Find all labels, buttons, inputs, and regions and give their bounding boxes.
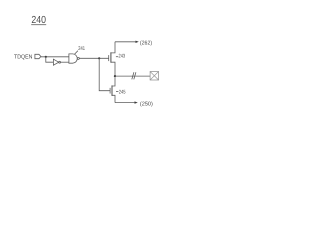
figure label 240 <box>31 15 46 26</box>
underline of 240 <box>31 24 46 26</box>
node junction at TDQEN branch <box>45 56 47 58</box>
arrowhead to (262) <box>136 41 139 43</box>
wire Q243 drain to node 262 <box>115 41 136 43</box>
wire inverter output to gate U241 bottom input <box>61 61 69 63</box>
net label (250) <box>140 100 153 107</box>
label 245 <box>116 91 118 93</box>
svg-text:(262): (262) <box>140 39 152 46</box>
pad symbol <box>150 72 159 81</box>
wire TDQEN to gate U241 top input <box>41 56 69 58</box>
arrowhead to (250) <box>135 101 138 103</box>
leader line for 241 <box>75 51 78 54</box>
transistor Q245 <box>109 88 111 94</box>
svg-text:245: 245 <box>119 90 126 96</box>
net label (262) <box>140 39 152 46</box>
node junction pad net <box>114 75 116 77</box>
inverter 242 <box>53 59 58 65</box>
label 241 <box>78 46 85 52</box>
svg-text:243: 243 <box>119 54 126 60</box>
wire gate output to transistor gates <box>79 57 108 59</box>
NAND gate 241 <box>69 54 77 63</box>
svg-text:TDQEN: TDQEN <box>14 54 32 61</box>
net label TDQEN <box>14 54 32 61</box>
svg-text:(250): (250) <box>140 100 153 107</box>
wire break marks <box>132 72 134 79</box>
transistor Q243 <box>108 55 110 61</box>
node junction gate rail <box>98 57 100 59</box>
input port symbol TDQEN <box>35 54 41 58</box>
wire branch down to inverter <box>46 57 54 62</box>
wire Q245 source to node 250 <box>115 102 135 104</box>
svg-text:241: 241 <box>78 46 85 52</box>
label 243 <box>116 56 118 58</box>
wire node to pad <box>115 75 150 77</box>
wire gate rail down to Q245 gate <box>99 58 110 90</box>
